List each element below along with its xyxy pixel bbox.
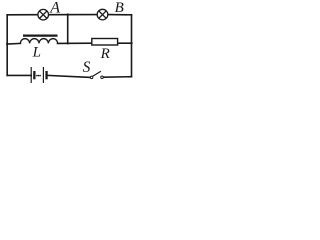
switch S right contact [101,76,104,79]
wire middle vertical branch [67,15,69,44]
wire bottom rail to battery [7,74,31,76]
inductor L coil [20,39,57,44]
resistor R [92,39,118,46]
wire top rail right segment [108,14,131,16]
svg-text:S: S [83,59,91,76]
node junction middle rail at branch [67,42,69,44]
wire top rail middle segment [49,14,97,16]
battery cell 1 long plate [30,67,32,83]
battery cell 1 short thick plate [33,71,35,79]
battery dots [36,75,41,77]
wire battery to switch [48,75,91,77]
wire resistor to right rail [118,42,132,44]
wire coil to resistor [58,42,93,44]
lamp A [38,9,49,20]
battery cell 2 long plate [42,67,44,83]
wire middle rail lead to coil [7,42,20,45]
wire left rail [6,15,8,76]
battery cell 2 short thick plate [45,71,47,79]
svg-text:B: B [115,0,124,16]
node junction left rail [6,43,8,45]
wire switch to bottom right corner [104,76,132,79]
switch S lever [93,71,101,76]
svg-text:R: R [100,46,110,62]
wire top rail left segment [7,14,38,16]
node junction right rail [130,42,132,44]
svg-text:L: L [32,45,41,61]
svg-text:A: A [49,0,60,17]
node junction top middle [67,13,69,15]
lamp B [97,9,108,20]
switch S left contact [90,76,93,79]
wire right rail [131,15,133,77]
inductor L core bar [23,34,58,36]
